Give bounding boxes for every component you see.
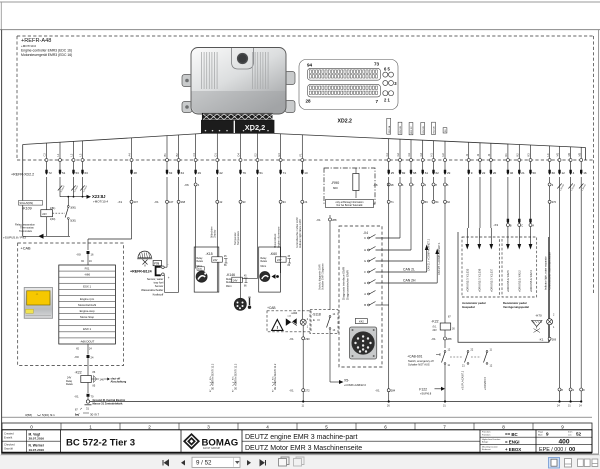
svg-text:-R90: -R90	[331, 181, 339, 185]
svg-text:-K109: -K109	[22, 206, 32, 210]
svg-text:Kraftstoff: Kraftstoff	[153, 292, 164, 296]
svg-text:5: 5	[325, 425, 328, 430]
svg-text:73: 73	[374, 62, 380, 67]
svg-text:K2: K2	[516, 153, 520, 157]
svg-text:Motor-Stop: Motor-Stop	[80, 315, 94, 319]
svg-text:F122: F122	[419, 387, 427, 391]
svg-text:61: 61	[425, 171, 429, 175]
svg-text:-H04: -H04	[291, 311, 298, 315]
svg-text:from: from	[568, 431, 573, 434]
svg-text:288: 288	[447, 337, 452, 341]
wire to X1:288 and switch S118	[304, 177, 337, 310]
svg-text:1: 1	[89, 425, 92, 430]
title block function cells	[480, 430, 592, 453]
svg-text:Gaspedal: Gaspedal	[462, 305, 475, 309]
svg-text:D1: D1	[214, 153, 218, 157]
pedals assembly enclosure	[458, 232, 549, 342]
wire XD2.2 pin 64 at x=178.6	[175, 135, 184, 175]
svg-text:ESX 1: ESX 1	[83, 285, 91, 289]
svg-text:A: A	[532, 224, 534, 228]
svg-text:Relais: Relais	[197, 261, 204, 263]
off-page reference +DATA+SEAT at x=212.2	[210, 363, 215, 392]
svg-text:+REFR-XD2.2: +REFR-XD2.2	[11, 172, 34, 176]
ECU module A48	[182, 48, 295, 115]
svg-text:1(30): 1(30)	[50, 218, 56, 221]
relay K22 cab	[66, 358, 127, 393]
harness fan-out wires	[23, 134, 586, 237]
svg-text:63: 63	[169, 171, 173, 175]
wire X1:93 to temperature sensor	[234, 177, 246, 298]
wire X6:18 down through X1:71 to bus	[375, 177, 396, 408]
wire XD2.2 pin 10 at x=302.3	[299, 135, 308, 175]
relay K146	[226, 177, 258, 288]
svg-text:+CAB: +CAB	[21, 247, 31, 251]
reference arrow +SUPU5.8/P93	[3, 234, 70, 240]
svg-text:Relais: Relais	[66, 383, 73, 386]
svg-text:Einbauort: Einbauort	[482, 448, 491, 451]
svg-text:52: 52	[576, 432, 582, 437]
svg-text:XD2.2: XD2.2	[245, 123, 266, 132]
wire X6:4 to coolant symbol	[184, 177, 200, 269]
svg-text:K1: K1	[504, 153, 508, 157]
svg-text:Geprüft: Geprüft	[4, 447, 13, 451]
svg-text:DEUTZ engine EMR 3 machine-par: DEUTZ engine EMR 3 machine-part	[245, 434, 357, 441]
svg-text:Engine oil pressure: Engine oil pressure	[277, 226, 280, 248]
svg-text:N. Werner: N. Werner	[29, 444, 45, 448]
svg-text:CAN 2H / +COMP+CAN/27.1: CAN 2H / +COMP+CAN/27.1	[438, 242, 441, 275]
svg-text:FAYAT GROUP: FAYAT GROUP	[203, 447, 221, 450]
wire XD2.2 pin 51 at x=257.5	[254, 134, 263, 176]
wire XD2.2 pin 21 at x=519.3	[516, 145, 525, 176]
svg-text:X42: X42	[359, 320, 364, 324]
rotated harness labels	[387, 118, 447, 135]
cab box with warning lamp H04	[267, 306, 311, 332]
svg-text:269: 269	[552, 337, 557, 341]
svg-text:4: 4	[266, 425, 269, 430]
svg-text:= ENGI: = ENGI	[505, 439, 520, 444]
svg-text:19.07.2016: 19.07.2016	[29, 448, 45, 452]
wires X1:167 X1:168 to sensor	[154, 177, 186, 292]
svg-text:8: 8	[502, 425, 505, 430]
accelerator pedal feed wires	[469, 177, 491, 228]
svg-text:B1: B1	[163, 153, 167, 157]
svg-text:CAN 2H: CAN 2H	[403, 279, 416, 283]
wire XD2.2 pin 29 at x=445	[441, 141, 450, 175]
CAN 2L wire and reference	[376, 186, 440, 272]
svg-text:Indicator light failure EMR: Indicator light failure EMR	[299, 219, 302, 248]
wire XD2.2 pin 71 at x=280.6	[277, 134, 286, 175]
svg-text:-X0: -X0	[76, 252, 81, 256]
svg-text:28.07.2016: 28.07.2016	[29, 437, 45, 441]
wire XD2.2 pin 50 at x=530.5	[527, 145, 536, 175]
viewer toolbar	[0, 455, 600, 469]
svg-text:E4: E4	[277, 153, 281, 157]
svg-text:Temperature: Temperature	[237, 230, 240, 245]
wire XD2.2 pin 29 at x=195.6	[192, 134, 201, 175]
svg-text:+: +	[168, 276, 170, 280]
svg-text:XD2.2: XD2.2	[338, 119, 353, 125]
svg-text:+CAB-S01: +CAB-S01	[407, 355, 422, 359]
svg-text:X23:8J: X23:8J	[92, 194, 106, 199]
wire XD2.2 pin 46 at x=507.9	[504, 144, 513, 175]
svg-text:21: 21	[521, 171, 525, 175]
second pole contacts of CAB-S01	[450, 349, 493, 391]
wire group to X23:8J with cross-section marks	[58, 177, 109, 203]
svg-text:-X1: -X1	[539, 337, 544, 341]
svg-text:24V: 24V	[213, 259, 218, 262]
terminal X1:70	[74, 394, 94, 399]
svg-text:24V: 24V	[233, 279, 238, 282]
svg-text:2: 2	[148, 425, 151, 430]
svg-text:72: 72	[49, 171, 53, 175]
svg-text:3: 3	[207, 425, 210, 430]
svg-text:30 /9.7: 30 /9.7	[90, 413, 100, 417]
svg-text:5(30): 5(30)	[70, 219, 76, 222]
wire XD2.2 pin 68 at x=411	[407, 140, 416, 176]
connector X6 terminals	[373, 183, 449, 187]
svg-text:F01: F01	[85, 266, 90, 270]
svg-text:Abschaltung: Abschaltung	[111, 380, 127, 384]
title block frame	[2, 430, 592, 453]
svg-text:Micro: Micro	[226, 285, 232, 288]
svg-text:68: 68	[413, 171, 417, 175]
wire XD2.2 pin 63 at x=82.5	[79, 141, 88, 175]
ground bus wire 31	[90, 401, 582, 403]
accelerator pedal dashed box	[462, 228, 499, 309]
relay K22 engine side	[431, 186, 455, 348]
wire X1:24 to lamp H04	[296, 177, 308, 319]
svg-text:Nur bei Bomat Telematik: Nur bei Bomat Telematik	[337, 204, 364, 207]
svg-text:Relais: Relais	[261, 261, 268, 263]
title block description cell	[242, 430, 480, 453]
svg-text:Anlage: Anlage	[482, 440, 489, 443]
svg-text:00: 00	[569, 447, 575, 453]
svg-text:71: 71	[283, 171, 287, 175]
wires X6:6 X6:7 X6:4 X6:8 upper segments	[400, 177, 445, 183]
off-page reference +DATA+SEAT at x=234.9	[232, 363, 237, 392]
svg-text:EPE / 000 /: EPE / 000 /	[539, 447, 567, 453]
svg-text:K3: K3	[527, 153, 531, 157]
wire XD2.2 pin 60 at x=549.6	[546, 146, 555, 175]
svg-text:+DRIV/15.1/ X42:4: +DRIV/15.1/ X42:4	[529, 270, 533, 292]
svg-text:Switch, emergency off: Switch, emergency off	[408, 359, 434, 363]
sensor B124 water separator	[130, 251, 170, 296]
svg-text:5(30) /9.1: 5(30) /9.1	[42, 413, 55, 417]
svg-text:+MOT/10.4: +MOT/10.4	[93, 199, 108, 203]
svg-text:-X1: -X1	[154, 200, 159, 204]
svg-text:Higher-level function: Higher-level function	[482, 438, 500, 441]
svg-text:2 1: 2 1	[384, 98, 390, 103]
svg-text:63: 63	[85, 171, 89, 175]
svg-text:-X6: -X6	[373, 183, 378, 187]
cab enclosure +CAB	[18, 243, 124, 366]
svg-text:0: 0	[30, 425, 33, 430]
connector X4 contacts	[364, 235, 376, 308]
wire X1:94 oil pressure	[274, 177, 286, 273]
svg-text:Temperatur: Temperatur	[234, 232, 237, 245]
toolbar navigation buttons	[163, 457, 304, 467]
svg-text:B: B	[510, 224, 512, 228]
svg-text:-H70: -H70	[535, 314, 542, 318]
wire XD2.2 pin 22 at x=480	[476, 143, 485, 175]
svg-text:6: 6	[384, 425, 387, 430]
wire XD2.2 pin 63 at x=167	[163, 136, 172, 176]
svg-text:22: 22	[482, 171, 486, 175]
svg-text:== BC: == BC	[505, 432, 519, 437]
svg-text:284: 284	[391, 389, 396, 393]
svg-text:XD2.2C: XD2.2C	[411, 126, 413, 134]
indicator lamp H70 water separator	[532, 177, 557, 342]
right supply wires with cross-section marks	[557, 177, 587, 408]
connector XD2.2 pinout detail	[299, 60, 398, 125]
svg-text:1(81): 1(81)	[50, 207, 56, 210]
svg-text:-X1: -X1	[118, 200, 123, 204]
svg-text:⚠: ⚠	[36, 292, 39, 296]
emergency off switch CAB-S01	[407, 349, 451, 408]
svg-text:16: 16	[583, 171, 587, 175]
svg-text:+SUPU5.8 / P93: +SUPU5.8 / P93	[3, 235, 26, 239]
svg-text:+DRIV/15.1/ X42:5: +DRIV/15.1/ X42:5	[506, 270, 510, 292]
wire XD2.2 pin 48 at x=131.5	[128, 138, 137, 175]
svg-text:XD2.2A: XD2.2A	[388, 125, 391, 133]
svg-text:+DRIV/15.5: +DRIV/15.5	[484, 376, 487, 390]
svg-text:trap fuel: trap fuel	[154, 281, 164, 285]
svg-text:-X1: -X1	[289, 389, 294, 393]
svg-text:Kontrollleuchte Fehler EMR: Kontrollleuchte Fehler EMR	[296, 217, 299, 248]
svg-text:M1: M1	[556, 152, 560, 156]
svg-text:C: C	[521, 224, 523, 228]
svg-text:50: 50	[533, 171, 537, 175]
svg-text:-X1: -X1	[74, 395, 79, 399]
svg-text:Masse 31 Zentralelektrik: Masse 31 Zentralelektrik	[93, 401, 124, 405]
decelerator pedal feed wires	[508, 177, 531, 223]
svg-text:-A66: -A66	[84, 273, 90, 277]
svg-text:G2: G2	[396, 152, 400, 156]
wire XD2.2 pin 82 at x=400	[396, 139, 405, 175]
svg-text:Kontrollleuchte Wasserabscheid: Kontrollleuchte Wasserabscheider	[548, 252, 551, 290]
ESX control unit table A66	[59, 265, 116, 344]
reference arrow X5 to COMP	[330, 334, 366, 387]
svg-text:+ EBOX: + EBOX	[505, 447, 521, 452]
svg-text:+MOT/10.0: +MOT/10.0	[21, 44, 36, 48]
svg-text:Blatt: Blatt	[538, 433, 543, 436]
svg-text:M2: M2	[567, 152, 571, 156]
relay K60 group box	[259, 247, 291, 292]
title block created checked cells	[2, 430, 61, 453]
svg-text:Diagnosestecker EMR: Diagnosestecker EMR	[346, 269, 350, 300]
svg-text:-X6: -X6	[184, 183, 189, 187]
svg-text:G1: G1	[385, 152, 389, 156]
svg-text:A4: A4	[128, 153, 132, 157]
svg-text:Sensor: Sensor	[155, 284, 164, 288]
svg-text:Motordrehzahl: Motordrehzahl	[78, 303, 96, 307]
wire X1:42 to K15 coil	[210, 177, 222, 292]
svg-text:G: G	[364, 259, 366, 263]
svg-text:7: 7	[443, 425, 446, 430]
svg-text:K: K	[364, 236, 366, 240]
svg-text:B: B	[364, 303, 366, 307]
svg-text:48: 48	[134, 171, 138, 175]
svg-text:+CAB: +CAB	[267, 306, 275, 310]
wire XD2.2 pin 25 at x=388.7	[385, 139, 394, 176]
svg-text:H2: H2	[441, 153, 445, 157]
svg-text:12: 12	[562, 171, 566, 175]
svg-text:H: H	[364, 281, 366, 285]
svg-text:-S118: -S118	[312, 313, 321, 317]
svg-text:H1: H1	[430, 153, 434, 157]
svg-text:25: 25	[391, 171, 395, 175]
svg-text:-K146: -K146	[226, 273, 235, 277]
wire XD2.2 pin 53 at x=73.5	[70, 141, 79, 175]
svg-text:-X0: -X0	[74, 355, 79, 359]
svg-text:288: 288	[332, 218, 337, 222]
svg-text:+DRIV/15.1/ X42:2: +DRIV/15.1/ X42:2	[518, 270, 522, 292]
svg-text:-K15: -K15	[206, 252, 213, 256]
svg-text:Page: Page	[538, 432, 544, 434]
temperature sensor symbol	[234, 297, 251, 311]
svg-text:A: A	[364, 292, 366, 296]
wires from X4 contacts up to X6 terminals	[376, 186, 429, 261]
svg-text:Motoröldruck: Motoröldruck	[274, 233, 277, 248]
svg-text:XD2.2D: XD2.2D	[423, 126, 425, 134]
wire XD2.2 pin 72 at x=46.5	[43, 143, 52, 175]
svg-text:Motorsteuergerät EMR3 (EDC 16): Motorsteuergerät EMR3 (EDC 16)	[21, 53, 72, 57]
svg-text:Mounting location: Mounting location	[482, 446, 498, 449]
svg-text:-K60: -K60	[270, 252, 277, 256]
operator display panel	[24, 288, 52, 319]
svg-text:87a: 87a	[75, 414, 80, 417]
svg-text:+DRIV/15.7/ X1:236: +DRIV/15.7/ X1:236	[478, 268, 482, 292]
diagnostic socket X42	[350, 319, 377, 360]
svg-text:BC 572-2 Tier 3: BC 572-2 Tier 3	[66, 437, 135, 448]
svg-text:167: 167	[169, 200, 174, 204]
svg-text:Erstellt: Erstellt	[4, 435, 12, 439]
CAN 2H wire and reference	[376, 242, 442, 283]
svg-text:140: 140	[100, 377, 105, 381]
svg-text:-A66 DOUT: -A66 DOUT	[80, 339, 95, 343]
decelerator pedal dashed box	[493, 219, 536, 309]
svg-text:Indicator light, water separat: Indicator light, water separator	[545, 256, 548, 290]
relay K109	[15, 177, 76, 236]
svg-text:-: -	[168, 263, 169, 267]
svg-text:+SUP/6.8: +SUP/6.8	[420, 392, 432, 396]
svg-text:46: 46	[510, 171, 514, 175]
svg-text:XD2.2B: XD2.2B	[400, 126, 402, 134]
svg-text:-X1: -X1	[316, 218, 321, 222]
svg-text:CAN 2L / +COMP+CAN/27.1: CAN 2L / +COMP+CAN/27.1	[428, 238, 431, 271]
svg-text:DEUTZ Motor EMR 3 Maschinensei: DEUTZ Motor EMR 3 Maschinenseite	[245, 445, 362, 452]
svg-text:Display: Display	[214, 229, 217, 238]
svg-text:207: 207	[134, 200, 139, 204]
wire XD2.2 pin 62 at x=433.5	[430, 141, 439, 176]
svg-text:X5-: X5-	[344, 379, 349, 383]
wire XD2.2 pin 61 at x=422.7	[419, 140, 428, 175]
title block page cells	[538, 431, 582, 454]
wire lamp H04 down to bus	[289, 325, 310, 407]
svg-text:62: 62	[436, 171, 440, 175]
svg-text:51: 51	[62, 171, 66, 175]
svg-text:ESX 1: ESX 1	[83, 327, 91, 331]
svg-text:F78: F78	[154, 262, 159, 266]
svg-text:51: 51	[260, 171, 264, 175]
svg-text:+SUPU+CAB/7.1: +SUPU+CAB/7.1	[462, 370, 465, 390]
svg-text:Relay: Relay	[197, 258, 204, 260]
svg-text:H: H	[364, 248, 366, 252]
svg-text:Schalter EMR Diagnose: Schalter EMR Diagnose	[322, 263, 325, 290]
svg-text:64: 64	[181, 171, 185, 175]
wire XD2.2 pin 79 at x=240.5	[237, 134, 246, 176]
wire pin 48 to X0:16	[88, 177, 138, 250]
svg-text:C4: C4	[192, 153, 196, 157]
svg-text:-X1: -X1	[375, 389, 380, 393]
svg-text:24V: 24V	[277, 259, 282, 262]
svg-text:Created: Created	[4, 432, 14, 436]
ECU connector XD2.2 block	[201, 113, 274, 133]
svg-text:Checked: Checked	[4, 443, 15, 447]
svg-text:-X1: -X1	[289, 337, 294, 341]
svg-text:SOLL/6(OM): SOLL/6(OM)	[20, 202, 34, 205]
wire XD2.2 pin 42 at x=217.3	[214, 134, 223, 176]
svg-text:24V: 24V	[42, 212, 47, 216]
svg-text:Function: Function	[482, 431, 491, 434]
svg-text:290: 290	[305, 337, 310, 341]
switch S118 dashed box	[310, 310, 338, 334]
svg-text:-K22: -K22	[431, 320, 438, 324]
title block machine type cell	[66, 430, 181, 453]
svg-text:400: 400	[558, 439, 569, 446]
svg-text:Engine-controller EMR3 (EDC 16: Engine-controller EMR3 (EDC 16)	[21, 49, 72, 53]
svg-text:+COMP+CAB/22.0: +COMP+CAB/22.0	[344, 383, 366, 387]
svg-text:Verzögerungspedal: Verzögerungspedal	[503, 305, 529, 309]
enclosure +REFR-A48 dashed boundary	[17, 36, 594, 293]
svg-text:B2: B2	[175, 153, 179, 157]
svg-text:82: 82	[402, 171, 406, 175]
fuse reference F122	[419, 387, 445, 396]
svg-text:10: 10	[304, 171, 308, 175]
svg-text:94: 94	[307, 62, 313, 67]
svg-text:42: 42	[219, 171, 223, 175]
svg-text:Relay: Relay	[261, 258, 268, 260]
svg-text:3(90): 3(90)	[70, 206, 76, 209]
svg-text:24V: 24V	[433, 329, 438, 332]
svg-text:60S: 60S	[198, 269, 202, 271]
diagnosis interface X4 dashed box	[319, 226, 383, 367]
svg-text:Bildschirm: Bildschirm	[210, 226, 213, 238]
svg-text:9: 9	[546, 432, 549, 437]
svg-text:E: E	[313, 318, 315, 322]
svg-text:XD2.2E: XD2.2E	[434, 126, 436, 134]
svg-text:270: 270	[552, 200, 557, 204]
resistor R90 terminating box	[324, 168, 375, 208]
svg-text:Micro: Micro	[261, 265, 267, 268]
contact reference notes bottom left	[25, 408, 100, 417]
wire XD2.2 pin 20 at x=490.9	[487, 143, 496, 175]
svg-text:28: 28	[306, 99, 312, 104]
svg-text:Wasserabscheider: Wasserabscheider	[141, 288, 163, 292]
wire XD2.2 pin 9 at x=468.7	[465, 142, 473, 175]
svg-text:29: 29	[198, 171, 202, 175]
svg-text:6 5: 6 5	[384, 67, 390, 72]
BOMAG logo	[183, 430, 242, 453]
wire XD2.2 pin 51 at x=60	[56, 142, 65, 175]
svg-text:272: 272	[305, 389, 310, 393]
toolbar page layout icons	[549, 458, 598, 469]
svg-text:9: 9	[561, 425, 564, 430]
svg-text:Schalter NOT AUS: Schalter NOT AUS	[408, 363, 430, 367]
svg-text:53: 53	[76, 171, 80, 175]
svg-text:Trennrelais: Trennrelais	[19, 229, 33, 233]
wire XD2.2 pin 12 at x=559.5	[556, 146, 565, 175]
